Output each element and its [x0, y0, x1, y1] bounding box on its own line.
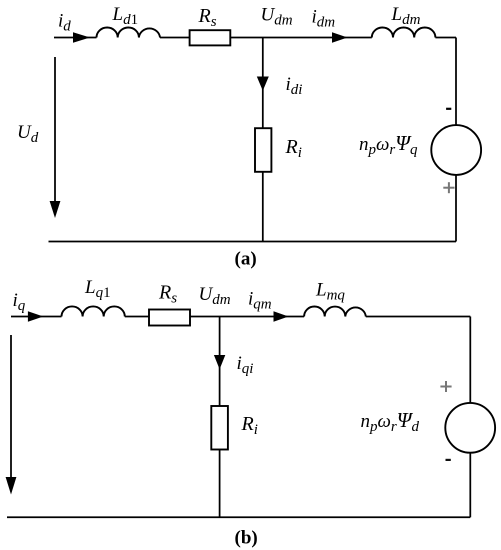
svg-text:(b): (b)	[235, 528, 258, 549]
svg-text:npωrΨd: npωrΨd	[361, 408, 420, 435]
svg-text:(a): (a)	[235, 249, 257, 270]
svg-text:npωrΨq: npωrΨq	[359, 131, 418, 158]
